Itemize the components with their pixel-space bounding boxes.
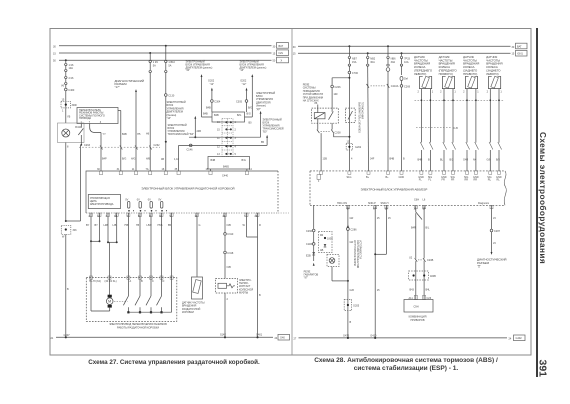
torn right edge: [504, 171, 506, 205]
svg-text:5: 5: [235, 153, 237, 156]
splice tag 300R: [61, 99, 78, 119]
svg-text:10А: 10А: [404, 61, 409, 64]
svg-text:Н/G: Н/G: [131, 158, 136, 161]
svg-text:4В: 4В: [161, 158, 164, 161]
instrument cluster box: [404, 300, 433, 322]
svg-text:G205: G205: [353, 304, 360, 307]
svg-text:13: 13: [217, 153, 220, 156]
svg-text:YB: YB: [67, 116, 71, 119]
svg-text:2: 2: [487, 91, 489, 94]
svg-text:КОРОБКИ: КОРОБКИ: [182, 311, 194, 314]
svg-text:ЭЛЕКТРОПРИВОДА: ЭЛЕКТРОПРИВОДА: [90, 203, 114, 206]
connector C269: [400, 81, 410, 89]
svg-text:С: С: [152, 280, 154, 283]
svg-text:15: 15: [512, 53, 515, 56]
svg-text:FL: FL: [428, 179, 432, 182]
svg-text:С304: С304: [214, 100, 221, 103]
ABS/ESP ECU box: [310, 171, 506, 205]
svg-text:30: 30: [293, 46, 296, 49]
svg-text:С287: С287: [494, 230, 501, 233]
crossover blade: [416, 212, 422, 220]
actuator unit box (dashed): [86, 278, 177, 322]
svg-text:2: 2: [440, 91, 442, 94]
svg-text:С318: С318: [227, 252, 234, 255]
svg-text:G202: G202: [355, 146, 362, 149]
svg-text:1004: 1004: [327, 237, 333, 240]
ECU top pin numbers: [97, 168, 252, 171]
svg-text:С266: С266: [306, 230, 313, 233]
motor M in actuator: [91, 278, 113, 311]
ECU inner driver block label: [88, 195, 120, 209]
svg-text:15: 15: [217, 128, 220, 131]
page border frame: [50, 29, 531, 356]
svg-text:1: 1: [500, 91, 502, 94]
fuse Ef3 (1 K9 5A): [149, 60, 158, 72]
svg-text:Схема 27. Система управления р: Схема 27. Система управления раздаточной…: [88, 358, 260, 366]
driver output stage 3: [148, 198, 153, 208]
svg-text:7А: 7А: [146, 168, 149, 171]
svg-text:R: R: [259, 224, 261, 227]
svg-text:В4В: В4В: [203, 113, 208, 116]
svg-text:RL: RL: [497, 179, 501, 182]
node junction bus30 / fuse Ef9: [387, 45, 389, 47]
svg-text:L5: L5: [493, 217, 496, 220]
wheel speed sensor RL label: [486, 55, 502, 76]
svg-text:10А: 10А: [69, 67, 74, 70]
svg-text:V6: V6: [61, 85, 65, 88]
svg-text:5А: 5А: [168, 64, 171, 67]
svg-text:"17": "17": [115, 85, 120, 89]
connector C130: [165, 73, 175, 98]
svg-text:IGN: IGN: [279, 52, 284, 55]
wire pos E inside: [171, 278, 173, 313]
svg-text:L5: L5: [493, 242, 496, 245]
fuse Ef32 15A: [348, 56, 357, 66]
wire B485 to ECU right: [246, 169, 248, 171]
svg-text:С9Н: С9Н: [414, 306, 419, 309]
svg-text:В/L: В/L: [426, 227, 430, 230]
bus 15 terminal box IGN: [277, 50, 289, 56]
wheel speed sensor RL: [487, 76, 503, 171]
svg-text:Схемы электрооборудования: Схемы электрооборудования: [538, 132, 548, 264]
instrument cluster wires: [409, 205, 437, 299]
wheel speed sensor RR label: [463, 55, 479, 76]
bus 15: [59, 52, 272, 54]
svg-text:30h: 30h: [73, 229, 78, 232]
svg-text:D: D: [163, 280, 165, 283]
wire ECU speed sensor: [197, 213, 201, 277]
svg-text:L4В: L4В: [104, 224, 109, 227]
pin pair row 5: [225, 153, 231, 155]
wire ECU pin2 motor +: [86, 213, 101, 278]
internal symbol: [317, 175, 321, 183]
driver output stage 4: [158, 198, 163, 208]
svg-text:ВL: ВL: [440, 159, 444, 162]
svg-text:SND-Р: SND-Р: [368, 202, 376, 205]
wire to ground bus: [65, 234, 67, 337]
svg-text:FL: FL: [419, 179, 423, 182]
svg-text:50: 50: [273, 60, 276, 63]
svg-text:15: 15: [273, 53, 276, 56]
wire: [165, 46, 167, 60]
connector row C20B: [415, 258, 418, 262]
svg-text:ПРИВОДА: ПРИВОДА: [79, 117, 91, 120]
svg-text:В/G: В/G: [237, 114, 241, 117]
svg-text:"97": "97": [304, 277, 309, 280]
svg-text:YY: YY: [103, 133, 107, 136]
svg-text:В4Р: В4Р: [102, 158, 107, 161]
svg-text:30: 30: [512, 46, 515, 49]
svg-text:1: 1: [454, 91, 456, 94]
svg-text:0V: 0V: [148, 198, 151, 201]
svg-text:В5: В5: [261, 141, 265, 144]
indicator lamp box: [58, 123, 85, 143]
diagnostic connector chain: [477, 205, 506, 268]
svg-text:С305: С305: [236, 100, 243, 103]
svg-text:(34 R4 KL): (34 R4 KL): [105, 280, 117, 283]
sidebar rule: [536, 28, 538, 377]
svg-text:1 К9: 1 К9: [153, 61, 159, 64]
svg-text:400В: 400В: [430, 275, 436, 278]
ECU bottom pin pads right panel: [346, 205, 493, 208]
svg-text:В: В: [350, 321, 352, 324]
ground bus right panel: [294, 334, 526, 340]
svg-text:В4В: В4В: [122, 133, 127, 136]
ECU top pin pads: [320, 171, 501, 174]
svg-text:В/3: В/3: [496, 159, 500, 162]
wheel speed sensor FR label: [439, 55, 458, 76]
svg-text:ПРИБОРОВ: ПРИБОРОВ: [410, 319, 424, 322]
svg-text:30: 30: [273, 45, 276, 48]
svg-text:УСТОЙЧИВОСТИ: УСТОЙЧИВОСТИ: [359, 240, 362, 259]
svg-text:"34": "34": [186, 69, 191, 72]
fuse Ef2 (2 K6): [61, 76, 74, 87]
svg-text:С310: С310: [227, 233, 234, 236]
svg-text:2 К6: 2 К6: [69, 77, 75, 80]
wire lamp feed drop: [65, 60, 67, 63]
svg-text:L5W: L5W: [147, 224, 153, 227]
svg-text:G40: G40: [280, 337, 285, 340]
svg-text:RR: RR: [465, 179, 469, 182]
svg-text:РАБОТЫ РАЗДАТОЧНОЙ КОРОБКИ: РАБОТЫ РАЗДАТОЧНОЙ КОРОБКИ: [117, 327, 159, 330]
ground G202 left: [206, 80, 221, 113]
node: junction trans ECU B4: [165, 141, 167, 143]
svg-text:GR: GR: [350, 217, 354, 220]
svg-text:С11В: С11В: [306, 243, 312, 246]
relay coil: [314, 113, 325, 119]
svg-text:ТОРМОЖЕНИЯ: ТОРМОЖЕНИЯ: [360, 102, 362, 119]
wire H2 row4 link: [174, 144, 267, 171]
svg-text:2: 2: [418, 91, 420, 94]
svg-text:С269: С269: [404, 85, 411, 88]
sensor wire labels: [418, 159, 501, 162]
svg-text:15: 15: [377, 289, 380, 292]
wheel clutch thermo contact: [216, 279, 254, 338]
coil symbol Def: [400, 66, 408, 80]
ESP warning lamp: [327, 240, 362, 281]
wire ECU pin20 thermo: [224, 213, 234, 279]
svg-text:ЯЧ4А: ЯЧ4А: [75, 126, 82, 129]
svg-text:1: 1: [477, 91, 479, 94]
svg-text:24В: 24В: [197, 130, 202, 133]
transfer case speed sensor: [182, 277, 205, 314]
engine ECU label (diesel) 13: [240, 61, 267, 118]
svg-text:G470: G470: [343, 334, 350, 337]
svg-text:В: В: [403, 157, 405, 160]
relay K downhill box: [312, 102, 339, 123]
svg-text:Dеf: Dеf: [404, 78, 408, 81]
svg-text:В4R: В4R: [418, 159, 423, 162]
terminal box BAT right panel: [516, 43, 528, 49]
ground G202 right: [236, 80, 252, 113]
svg-text:В: В: [259, 294, 261, 297]
svg-text:30А: 30А: [391, 61, 396, 64]
wire to ECU GND: [401, 87, 403, 170]
trans ECU label B0: [261, 119, 284, 146]
mode switch S21 box: [77, 108, 118, 124]
sensor harness connector row: [415, 99, 505, 101]
node: junction bus30 / fuse 1B10: [165, 45, 167, 47]
svg-text:АВ: АВ: [320, 249, 324, 252]
engine ECU label (diesel) 34: [186, 61, 213, 118]
svg-text:РАЗЪЕМ: РАЗЪЕМ: [477, 261, 490, 265]
svg-text:G/В: G/В: [487, 159, 492, 162]
trans ECU label B4: [168, 124, 195, 136]
svg-text:GR: GR: [350, 241, 354, 244]
wire SND-P: [374, 205, 391, 338]
svg-text:В5: В5: [168, 224, 172, 227]
connector C460: [65, 85, 75, 92]
svg-text:Diаgnоsis: Diаgnоsis: [478, 202, 490, 205]
node: junction bus15 / fuse 1K9: [149, 52, 151, 54]
wire contact branch: [65, 135, 82, 222]
svg-text:5А: 5А: [153, 64, 156, 67]
splice G205: [344, 300, 351, 311]
connector row C263 / C262: [79, 144, 160, 149]
svg-text:34F: 34F: [370, 157, 375, 160]
svg-text:1: 1: [62, 110, 64, 113]
svg-text:27: 27: [294, 337, 297, 340]
svg-text:В/G: В/G: [248, 107, 252, 110]
svg-text:В/3: В/3: [450, 159, 454, 162]
svg-text:0V: 0V: [137, 198, 140, 201]
svg-text:15: 15: [53, 53, 56, 56]
svg-text:система стабилизации (ESP) - 1: система стабилизации (ESP) - 1.: [354, 364, 459, 372]
svg-text:ПРАВОГО): ПРАВОГО): [463, 72, 477, 76]
splice tag 30h: [61, 225, 77, 238]
svg-text:G410: G410: [370, 334, 377, 337]
relay position lights chain: [304, 205, 319, 279]
panel divider: [291, 29, 293, 356]
svg-text:С262: С262: [154, 144, 161, 147]
ECU bottom pin labels: [337, 199, 490, 211]
svg-text:В/G: В/G: [122, 158, 126, 161]
svg-text:30А: 30А: [370, 61, 375, 64]
connector C706: [348, 66, 358, 75]
svg-text:14F: 14F: [334, 93, 339, 96]
cluster pin cells: [414, 295, 417, 299]
wire main drop: [348, 74, 350, 171]
svg-text:13В: 13В: [323, 157, 328, 160]
svg-text:30: 30: [53, 45, 56, 48]
wire: [65, 91, 67, 123]
svg-text:B: B: [67, 288, 69, 291]
pin pair row 4: [225, 145, 231, 147]
wire: [149, 53, 151, 60]
wire ECU pos C: [147, 213, 153, 278]
node: junction bus50 / lamp feed: [65, 59, 67, 61]
svg-text:W: W: [62, 236, 65, 239]
svg-text:С146: С146: [187, 149, 194, 152]
svg-text:С130: С130: [168, 95, 175, 98]
engine ECU label (benzin) D7: [249, 92, 276, 137]
downhill assist relay label: [303, 84, 324, 103]
svg-text:С208: С208: [335, 131, 342, 134]
svg-text:В/G: В/G: [242, 159, 246, 162]
svg-text:U2: U2: [409, 257, 413, 260]
svg-text:ЛЕВОГО): ЛЕВОГО): [414, 72, 426, 76]
svg-text:G402: G402: [516, 337, 523, 340]
svg-text:ВY: ВY: [95, 224, 99, 227]
splice box 400B: [409, 271, 429, 280]
svg-text:С286: С286: [351, 228, 358, 231]
wire: [65, 72, 67, 76]
svg-text:FR: FR: [451, 179, 455, 182]
wire HDC lamp circuit: [344, 205, 360, 338]
svg-text:ЭЛЕКТРОННЫЙ БЛОК УПРАВЛЕНИЯ АВ: ЭЛЕКТРОННЫЙ БЛОК УПРАВЛЕНИЯ АВS/ЕSР: [361, 187, 428, 191]
connector C206: [331, 85, 334, 88]
wheel speed sensor RR: [463, 76, 479, 171]
wire H1 row3 link: [189, 136, 261, 138]
svg-text:С210А: С210А: [391, 85, 399, 88]
svg-text:Н5: Н5: [136, 224, 140, 227]
connector row C_B front sensors: [416, 127, 458, 130]
svg-text:В4В: В4В: [214, 114, 219, 117]
wheel speed sensor FL label: [414, 55, 433, 76]
svg-text:15: 15: [293, 53, 296, 56]
bus 30 right panel: [298, 45, 511, 47]
svg-text:G/R: G/R: [350, 289, 355, 292]
position switch D: [157, 278, 163, 314]
connector box B485 bottom: [208, 157, 250, 170]
svg-text:В485: В485: [223, 165, 229, 168]
svg-text:24: 24: [275, 337, 278, 340]
lamp L9: [62, 129, 70, 137]
ECU top pin labels: [347, 176, 502, 182]
wire B485 to ECU left: [210, 169, 212, 171]
node junction bus15 / fuse F33: [401, 52, 403, 54]
svg-text:"Б0": "Б0": [263, 131, 268, 134]
wire switch pin1 (Y/Y): [90, 124, 107, 172]
svg-text:"14": "14": [167, 117, 172, 120]
svg-text:В4R: В4R: [411, 227, 416, 230]
wheel speed sensor FR: [440, 76, 456, 171]
wire fuse1B10 to ECU: [165, 97, 167, 172]
svg-text:В43: В43: [410, 289, 415, 292]
svg-text:Н6: Н6: [146, 133, 150, 136]
svg-text:С20В: С20В: [427, 259, 434, 262]
fuse Ef1 (1 K6 10A): [65, 63, 74, 71]
svg-text:G: G: [199, 224, 201, 227]
svg-text:21: 21: [51, 337, 54, 340]
svg-text:С206: С206: [335, 86, 342, 89]
svg-text:С263: С263: [84, 144, 91, 147]
ECU bottom pins numbers: [89, 215, 258, 218]
svg-text:R0: R0: [320, 234, 324, 237]
position switch B: [135, 278, 141, 314]
ground bus left panel: [51, 334, 290, 340]
bus 30 terminal box BAT: [277, 43, 289, 49]
engine ECU label (benzin) 14: [167, 101, 202, 138]
svg-text:В+: В+: [366, 176, 370, 179]
wire ECU pos D: [158, 213, 163, 278]
node junction bus30 ABS main: [348, 45, 350, 47]
svg-text:Е2В: Е2В: [306, 255, 311, 258]
svg-text:G407: G407: [64, 334, 71, 337]
svg-text:S142: S142: [220, 334, 226, 337]
wire ECU pin3 motor -: [104, 213, 118, 278]
svg-text:SND-Н: SND-Н: [381, 202, 389, 205]
svg-text:В4В: В4В: [390, 157, 395, 160]
terminal box IGN1 right panel: [516, 50, 528, 56]
svg-text:В4В: В4В: [211, 159, 216, 162]
svg-text:С6Н: С6Н: [414, 199, 419, 202]
svg-text:ЭЛЕКТРОННЫЙ БЛОК УПРАВЛЕНИЯ РА: ЭЛЕКТРОННЫЙ БЛОК УПРАВЛЕНИЯ РАЗДАТОЧНОЙ …: [141, 186, 234, 190]
wire ECU pos E: [168, 213, 172, 278]
svg-text:КОНТРОЛЬНАЯ ЛАМПА: КОНТРОЛЬНАЯ ЛАМПА: [353, 240, 356, 267]
ECU bottom pin pads: [90, 213, 260, 216]
svg-text:M: M: [108, 300, 111, 304]
splice G202 on main wire: [346, 141, 362, 161]
svg-text:15: 15: [377, 217, 380, 220]
svg-text:G401: G401: [256, 334, 263, 337]
svg-text:С460: С460: [68, 89, 75, 92]
svg-text:В: В: [141, 280, 143, 283]
bus 50: [59, 59, 272, 61]
relay switch blade: [331, 108, 333, 112]
wire ECU pos A: [124, 213, 129, 278]
pin pair row 3: [225, 137, 231, 139]
svg-text:С706: С706: [352, 72, 359, 75]
svg-text:4: 4: [351, 157, 353, 160]
svg-text:L6: L6: [423, 199, 426, 202]
contact SH4A: [80, 124, 82, 128]
svg-text:15А: 15А: [352, 61, 357, 64]
svg-text:"12": "12": [210, 83, 215, 86]
position switch A: [123, 278, 129, 314]
svg-text:В4В: В4В: [206, 107, 211, 110]
svg-text:391: 391: [537, 360, 549, 378]
wire ECU pos B: [136, 213, 140, 278]
svg-text:ТРАНСМИССИЕЙ "Б4": ТРАНСМИССИЕЙ "Б4": [168, 133, 195, 136]
svg-text:GND: GND: [399, 176, 405, 179]
svg-text:О/В: О/В: [227, 266, 232, 269]
driver output junction dots: [128, 210, 167, 212]
svg-text:1,10: 1,10: [174, 158, 179, 161]
svg-text:0V: 0V: [158, 198, 161, 201]
svg-text:В4L: В4L: [426, 289, 431, 292]
wire fuse1K9 to ECU: [149, 73, 151, 171]
node junction bus15 / fuse Ef1: [367, 52, 369, 54]
wire lamp return: [65, 143, 67, 222]
wire ECU pin7/23 supply: [243, 213, 262, 337]
svg-text:G4R: G4R: [463, 159, 468, 162]
arrow up to diagnostic connector: [135, 89, 137, 92]
svg-text:В/G: В/G: [247, 113, 251, 116]
wire relay to ECU: [320, 133, 322, 171]
wire to ECU B+: [367, 66, 370, 170]
bus 30: [59, 45, 272, 47]
